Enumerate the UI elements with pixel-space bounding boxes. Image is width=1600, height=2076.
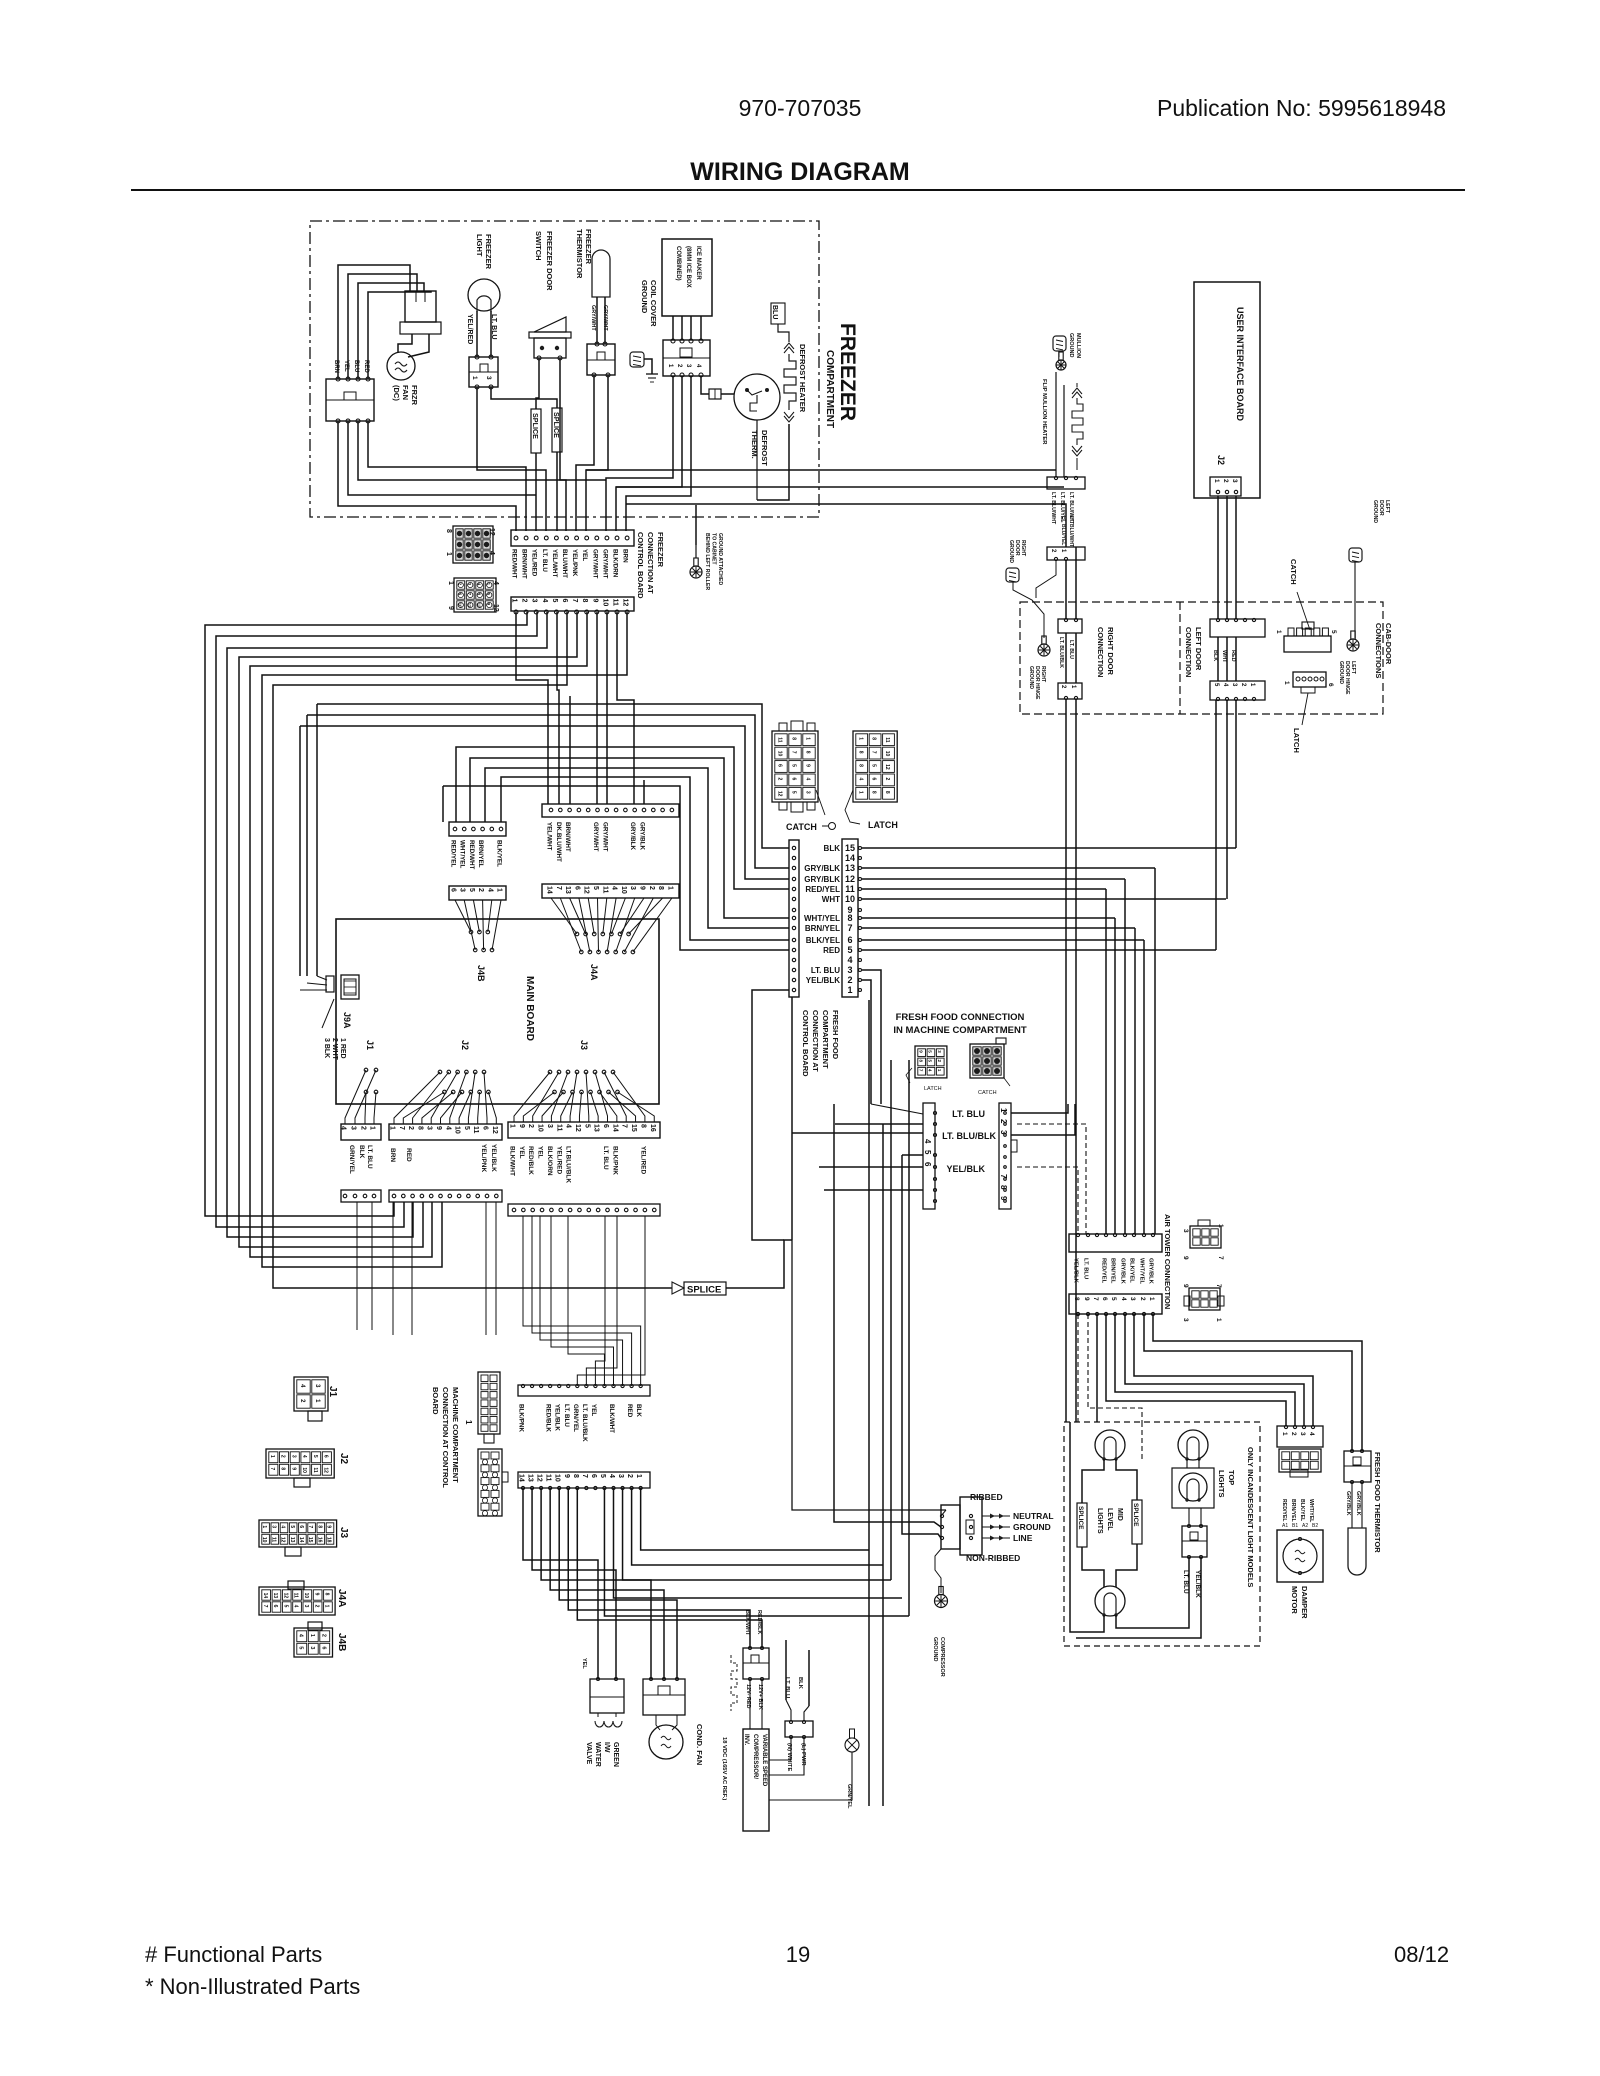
svg-text:11: 11: [845, 884, 855, 894]
right door ground wires: [1013, 582, 1044, 638]
svg-text:YEL/BLK: YEL/BLK: [806, 976, 840, 985]
svg-text:4: 4: [444, 1126, 451, 1130]
svg-text:YEL/BLK: YEL/BLK: [1073, 1258, 1079, 1284]
svg-text:13: 13: [289, 1537, 295, 1543]
damper motor box: [1277, 1530, 1323, 1582]
svg-text:YEL: YEL: [590, 1404, 597, 1416]
svg-text:2: 2: [280, 1455, 286, 1458]
svg-text:2: 2: [999, 1119, 1008, 1124]
svg-text:YEL: YEL: [581, 1658, 587, 1669]
J4B number strip: [449, 886, 506, 900]
legend J1 connector: [294, 1377, 328, 1411]
svg-text:BRN: BRN: [389, 1148, 396, 1162]
top lights bulbs: [1178, 1430, 1208, 1460]
right door bottom connector: [1058, 683, 1082, 699]
svg-text:AIR TOWER CONNECTION: AIR TOWER CONNECTION: [1163, 1214, 1172, 1309]
svg-text:FREEZER: FREEZER: [484, 234, 493, 270]
coil cover ground symbol: [630, 352, 644, 367]
fresh food pin 5 feeder: [442, 786, 444, 822]
svg-text:RED: RED: [405, 1148, 412, 1162]
svg-text:10: 10: [620, 886, 627, 894]
svg-text:5: 5: [1330, 630, 1337, 634]
thermistor wires down: [576, 375, 594, 531]
svg-text:INV.: INV.: [743, 1734, 749, 1745]
UI J2 connector: [1210, 477, 1241, 496]
svg-text:J9A: J9A: [342, 1012, 352, 1029]
svg-text:8: 8: [445, 529, 452, 533]
svg-text:4: 4: [340, 1126, 347, 1130]
svg-text:GRY/BLK: GRY/BLK: [1355, 1491, 1361, 1516]
svg-text:4: 4: [1308, 1432, 1315, 1436]
wire to defrost therm connector: [701, 376, 709, 394]
svg-text:Publication No: 5995618948: Publication No: 5995618948: [1157, 95, 1446, 121]
latch grid connector: [853, 731, 897, 802]
svg-text:ONLY INCANDESCENT LIGHT MODELS: ONLY INCANDESCENT LIGHT MODELS: [1246, 1447, 1255, 1587]
svg-text:YEL/PNK: YEL/PNK: [480, 1144, 487, 1172]
svg-text:12: 12: [322, 1467, 328, 1473]
svg-text:BRN/YEL: BRN/YEL: [477, 840, 484, 868]
svg-text:WIRING DIAGRAM: WIRING DIAGRAM: [690, 158, 909, 186]
svg-text:BLU: BLU: [771, 305, 778, 319]
svg-text:1: 1: [309, 1634, 315, 1637]
svg-text:FLIP MULLION HEATER: FLIP MULLION HEATER: [1041, 379, 1047, 445]
svg-text:WHT/YEL: WHT/YEL: [1308, 1499, 1314, 1523]
freezer light connector: [469, 357, 498, 387]
svg-text:RED/WHT: RED/WHT: [511, 549, 518, 579]
svg-text:12: 12: [476, 603, 481, 609]
svg-text:RED/BLK: RED/BLK: [756, 1610, 762, 1634]
legend J4A connector: [259, 1587, 335, 1615]
svg-text:6: 6: [573, 886, 580, 890]
svg-text:11: 11: [467, 603, 472, 608]
ice maker connector: [663, 340, 710, 376]
J1 bottom strip: [341, 1124, 381, 1140]
svg-text:11: 11: [545, 1474, 552, 1482]
svg-text:8: 8: [847, 913, 852, 923]
ice maker wires: [672, 316, 674, 340]
svg-text:1: 1: [369, 1126, 376, 1130]
svg-text:4: 4: [280, 1525, 286, 1528]
svg-text:J4A: J4A: [336, 1589, 347, 1607]
top lights wires down: [1116, 1557, 1189, 1628]
svg-text:6: 6: [272, 1605, 278, 1608]
svg-text:15: 15: [630, 1124, 637, 1132]
svg-text:18: 18: [326, 1537, 332, 1543]
svg-text:1: 1: [1148, 1297, 1155, 1301]
svg-text:YEL/PNK: YEL/PNK: [571, 549, 578, 577]
svg-text:COMBINED): COMBINED): [675, 246, 681, 281]
svg-text:8: 8: [324, 1593, 330, 1596]
svg-text:14: 14: [611, 1124, 618, 1132]
svg-text:18 VDC (165V AC REF.): 18 VDC (165V AC REF.): [721, 1737, 727, 1800]
svg-text:8: 8: [805, 751, 811, 754]
svg-text:10: 10: [884, 751, 890, 757]
svg-text:3: 3: [999, 1130, 1008, 1135]
legend J3 connector: [259, 1520, 337, 1547]
mullion heater connector: [1047, 477, 1085, 489]
svg-text:GROUND: GROUND: [1338, 661, 1344, 684]
svg-text:12: 12: [492, 604, 499, 612]
svg-text:RED: RED: [823, 946, 840, 955]
svg-text:LATCH: LATCH: [924, 1086, 942, 1092]
svg-text:J4B: J4B: [336, 1633, 347, 1651]
svg-text:2: 2: [320, 1634, 326, 1637]
compressor inline connector: [743, 1648, 769, 1679]
svg-text:4: 4: [565, 1124, 572, 1128]
svg-text:3: 3: [847, 965, 852, 975]
lt blu left strip feeds: [871, 1104, 923, 1114]
svg-text:14: 14: [298, 1537, 304, 1543]
svg-text:BLK: BLK: [824, 844, 841, 853]
svg-text:BLK/YEL: BLK/YEL: [1129, 1258, 1135, 1283]
cab latch connector: [1293, 672, 1326, 687]
mid lights wiring: [1082, 1459, 1104, 1503]
svg-text:5: 5: [282, 1605, 288, 1608]
svg-text:BLK: BLK: [635, 1404, 642, 1417]
svg-text:1: 1: [496, 888, 503, 892]
svg-text:LEVEL: LEVEL: [1106, 1508, 1113, 1531]
catch grid connector: [772, 731, 818, 802]
svg-text:9: 9: [290, 1467, 296, 1470]
svg-text:6: 6: [561, 599, 568, 603]
svg-text:GRY/WHT: GRY/WHT: [592, 822, 599, 852]
svg-text:11: 11: [601, 886, 608, 894]
svg-text:13: 13: [593, 1124, 600, 1132]
svg-text:14: 14: [546, 886, 553, 894]
svg-text:BLK/ORN: BLK/ORN: [546, 1146, 553, 1176]
svg-text:970-707035: 970-707035: [739, 95, 862, 121]
svg-text:THERM.: THERM.: [750, 430, 759, 459]
svg-text:08/12: 08/12: [1394, 1942, 1449, 1967]
svg-text:FREEZER DOOR: FREEZER DOOR: [545, 231, 554, 291]
svg-text:5: 5: [599, 1474, 606, 1478]
svg-text:1: 1: [447, 581, 454, 585]
air tower strip bottom: [1069, 1294, 1162, 1314]
svg-text:YEL/WHT: YEL/WHT: [546, 822, 553, 850]
svg-text:12: 12: [282, 1593, 288, 1599]
svg-text:9: 9: [1083, 1297, 1090, 1301]
svg-text:9: 9: [805, 764, 811, 767]
J2 lower pin row: [389, 1190, 502, 1202]
svg-text:BLK: BLK: [358, 1145, 365, 1159]
svg-text:WHT/YEL: WHT/YEL: [1139, 1258, 1145, 1285]
top lights leads: [1186, 1459, 1188, 1468]
svg-text:3: 3: [459, 888, 466, 892]
svg-text:5: 5: [297, 1646, 303, 1649]
svg-text:3: 3: [805, 791, 811, 794]
fresh food thermistor bulb: [1351, 1482, 1353, 1528]
left door top connector: [1210, 619, 1265, 637]
svg-text:GRY/WHT: GRY/WHT: [601, 822, 608, 852]
defrost therm inline connector: [709, 389, 721, 399]
svg-text:I/W: I/W: [603, 1742, 610, 1753]
splice left light: [1077, 1503, 1087, 1547]
svg-text:LT. BLU/BLK: LT. BLU/BLK: [942, 1131, 996, 1141]
right door wires down: [1065, 560, 1067, 619]
compressor ground lower: [935, 1549, 941, 1593]
cond fan connector: [643, 1679, 685, 1715]
svg-text:FREEZER: FREEZER: [836, 323, 859, 421]
group C wires J4B feeders to fresh food pins: [456, 747, 789, 889]
svg-text:GRY/WHT: GRY/WHT: [590, 305, 596, 331]
svg-text:9: 9: [999, 1196, 1008, 1201]
svg-text:7: 7: [1215, 1284, 1222, 1288]
svg-text:LT. BLU/WHT: LT. BLU/WHT: [1068, 516, 1074, 547]
svg-text:1: 1: [445, 552, 452, 556]
svg-text:DAMPER: DAMPER: [1300, 1586, 1309, 1619]
svg-text:GROUND: GROUND: [1068, 333, 1074, 357]
svg-text:12: 12: [884, 764, 890, 770]
svg-text:LEFT DOOR: LEFT DOOR: [1194, 627, 1203, 671]
svg-text:TO CABINET: TO CABINET: [711, 533, 717, 565]
svg-text:CONTROL BOARD: CONTROL BOARD: [636, 532, 645, 599]
frzr fan nested wires: [338, 265, 410, 379]
svg-text:1: 1: [1283, 681, 1290, 685]
svg-text:7: 7: [571, 599, 578, 603]
svg-text:YEL/BLK: YEL/BLK: [490, 1144, 497, 1172]
svg-text:9: 9: [1182, 1284, 1189, 1288]
svg-text:1: 1: [261, 1525, 267, 1528]
svg-text:2: 2: [1290, 1432, 1297, 1436]
svg-text:2 WHT: 2 WHT: [331, 1038, 338, 1061]
svg-text:8: 8: [416, 1126, 423, 1130]
damper grid connector: [1279, 1449, 1321, 1472]
svg-text:3: 3: [426, 1126, 433, 1130]
svg-text:6: 6: [298, 1525, 304, 1528]
svg-text:7: 7: [581, 1474, 588, 1478]
frzr fan motor connector: [405, 291, 436, 322]
svg-text:DK.BLU/WHT: DK.BLU/WHT: [555, 822, 562, 862]
power to inverter wires: [769, 1737, 791, 1760]
svg-text:COMPRESSOR/: COMPRESSOR/: [752, 1734, 758, 1779]
svg-text:BRN/YEL: BRN/YEL: [1110, 1258, 1116, 1284]
svg-text:2: 2: [407, 1126, 414, 1130]
svg-text:YEL: YEL: [581, 549, 588, 561]
svg-text:3: 3: [270, 1525, 276, 1528]
svg-text:COMPARTMENT: COMPARTMENT: [821, 1010, 830, 1069]
svg-text:DEFROST HEATER: DEFROST HEATER: [798, 344, 807, 413]
svg-text:GROUND: GROUND: [1008, 540, 1014, 563]
svg-text:NEUTRAL: NEUTRAL: [1013, 1511, 1054, 1521]
svg-text:3: 3: [350, 1126, 357, 1130]
svg-text:SWITCH: SWITCH: [534, 231, 543, 261]
mullion heater element: [1072, 388, 1082, 394]
svg-text:9: 9: [447, 606, 454, 610]
svg-text:FAN: FAN: [401, 385, 410, 400]
svg-text:GRN/YEL: GRN/YEL: [348, 1145, 355, 1174]
svg-text:FRZR: FRZR: [410, 385, 419, 406]
svg-text:16: 16: [649, 1124, 656, 1132]
svg-text:8: 8: [316, 1525, 322, 1528]
svg-text:1: 1: [635, 1474, 642, 1478]
svg-text:2: 2: [648, 886, 655, 890]
svg-text:CONNECTION: CONNECTION: [1096, 627, 1105, 677]
svg-text:2: 2: [477, 888, 484, 892]
svg-text:13: 13: [272, 1593, 278, 1599]
svg-text:9: 9: [563, 1474, 570, 1478]
svg-text:4: 4: [923, 1139, 932, 1144]
svg-text:4: 4: [1120, 1297, 1127, 1301]
door connections dashed box: [1020, 602, 1383, 714]
svg-text:3: 3: [617, 1474, 624, 1478]
svg-text:ICE MAKER: ICE MAKER: [695, 246, 701, 280]
svg-text:GROUND: GROUND: [640, 280, 649, 314]
svg-text:8: 8: [581, 599, 588, 603]
svg-text:GREEN: GREEN: [612, 1742, 619, 1767]
svg-text:BRN: BRN: [622, 549, 629, 563]
svg-text:1: 1: [324, 1605, 330, 1608]
svg-text:9: 9: [639, 886, 646, 890]
svg-text:2: 2: [360, 1126, 367, 1130]
svg-text:7: 7: [871, 751, 877, 754]
svg-text:J4A: J4A: [589, 964, 599, 981]
svg-text:CONNECTION AT: CONNECTION AT: [646, 532, 655, 594]
svg-text:7: 7: [1092, 1297, 1099, 1301]
svg-text:13: 13: [564, 886, 571, 894]
svg-text:1: 1: [389, 1126, 396, 1130]
svg-text:BLK/YEL: BLK/YEL: [1299, 1499, 1305, 1522]
svg-text:J1: J1: [365, 1040, 375, 1050]
svg-text:GROUND: GROUND: [1013, 1522, 1051, 1532]
thermistor leads: [596, 297, 598, 344]
svg-text:LT.BLU/BLK: LT.BLU/BLK: [565, 1146, 572, 1183]
svg-text:11: 11: [472, 1126, 479, 1134]
svg-text:SPLICE: SPLICE: [531, 413, 540, 439]
svg-text:J3: J3: [338, 1527, 349, 1539]
svg-text:DEFROST: DEFROST: [760, 430, 769, 466]
svg-text:WHT/YEL: WHT/YEL: [804, 914, 840, 923]
svg-text:RED/WHT: RED/WHT: [468, 840, 475, 870]
compressor power connector: [785, 1721, 813, 1737]
svg-text:3: 3: [1182, 1318, 1189, 1322]
svg-text:MULLION: MULLION: [1075, 333, 1081, 358]
svg-text:1: 1: [999, 1108, 1008, 1113]
UI wires to left door connector: [1217, 496, 1219, 619]
svg-text:BRN/WHT: BRN/WHT: [564, 822, 571, 852]
svg-text:8: 8: [1073, 1297, 1080, 1301]
svg-text:2: 2: [313, 1605, 319, 1608]
splice feed rail: [273, 612, 672, 1288]
legend J2 connector: [266, 1449, 334, 1478]
svg-text:4: 4: [492, 581, 499, 585]
svg-text:WATER: WATER: [594, 1742, 601, 1767]
incandescent lights dashed box: [1064, 1422, 1260, 1646]
water valve coil: [595, 1721, 622, 1727]
svg-text:RED/YEL: RED/YEL: [450, 840, 457, 867]
svg-text:GRN/YEL: GRN/YEL: [572, 1404, 579, 1432]
legend J4B connector: [294, 1628, 333, 1657]
svg-text:RED/YEL: RED/YEL: [1281, 1499, 1287, 1522]
svg-text:6: 6: [847, 935, 852, 945]
svg-text:BLU/WHT: BLU/WHT: [561, 549, 568, 578]
J2 bottom strip: [389, 1124, 502, 1140]
svg-text:12: 12: [777, 791, 783, 797]
svg-text:J2: J2: [1216, 455, 1226, 465]
svg-text:6: 6: [777, 764, 783, 767]
ice maker box: [662, 239, 712, 316]
air tower to damper and thermistor wires: [1153, 1314, 1362, 1451]
svg-text:FRESH FOOD CONNECTION: FRESH FOOD CONNECTION: [896, 1012, 1025, 1023]
svg-text:SPLICE: SPLICE: [1077, 1506, 1084, 1530]
svg-text:10: 10: [554, 1474, 561, 1482]
svg-text:GROUND ATTACHED: GROUND ATTACHED: [717, 533, 723, 585]
machine compartment connector lower grid: [478, 1449, 502, 1516]
svg-text:12: 12: [583, 886, 590, 894]
svg-text:WHT/YEL: WHT/YEL: [459, 840, 466, 868]
svg-text:BLK/WHT: BLK/WHT: [509, 1146, 516, 1176]
svg-text:CONNECTION AT CONTROL: CONNECTION AT CONTROL: [441, 1387, 450, 1488]
svg-text:6: 6: [322, 1455, 328, 1458]
thermistor bulb: [592, 250, 610, 297]
svg-text:B2: B2: [1312, 1523, 1318, 1529]
svg-text:BLK/WHT: BLK/WHT: [744, 1610, 750, 1636]
svg-text:RED: RED: [626, 1404, 633, 1418]
J9A connector: [341, 975, 359, 999]
svg-text:5: 5: [289, 1525, 295, 1528]
svg-text:CATCH: CATCH: [1289, 559, 1298, 585]
svg-text:CATCH: CATCH: [786, 822, 817, 832]
svg-text:BLK: BLK: [1212, 650, 1218, 661]
svg-text:5: 5: [312, 1455, 318, 1458]
svg-text:10: 10: [454, 1126, 461, 1134]
ribbed wire symbol: [731, 1655, 737, 1711]
svg-text:3: 3: [1129, 1297, 1136, 1301]
svg-text:LT. BLU: LT. BLU: [563, 1404, 570, 1427]
svg-text:3: 3: [1299, 1432, 1306, 1436]
freezer connection strip 2 with pin numbers: [511, 597, 634, 611]
mid level bulb top: [1095, 1430, 1125, 1460]
svg-text:1: 1: [509, 1124, 516, 1128]
long verticals to machine area: [791, 997, 793, 1240]
machine compartment strip: [518, 1385, 650, 1396]
svg-text:GRY/BLK: GRY/BLK: [629, 822, 636, 851]
splice 2 box: [552, 408, 562, 452]
svg-text:11: 11: [555, 1124, 562, 1132]
svg-text:B1: B1: [1292, 1523, 1298, 1529]
svg-text:CONNECTION AT: CONNECTION AT: [811, 1010, 820, 1072]
svg-text:4: 4: [293, 1605, 299, 1608]
svg-text:GROUND: GROUND: [1372, 500, 1378, 523]
svg-text:THERMISTOR: THERMISTOR: [575, 229, 584, 279]
svg-text:YEL: YEL: [537, 1146, 544, 1159]
svg-text:BRN/YEL: BRN/YEL: [805, 924, 840, 933]
svg-text:7: 7: [999, 1174, 1008, 1179]
svg-text:LT. BLU/BLK: LT. BLU/BLK: [1058, 637, 1064, 668]
user interface board: [1194, 282, 1260, 498]
svg-text:J2: J2: [460, 1040, 470, 1050]
svg-text:15: 15: [845, 843, 855, 853]
door switch symbol: [534, 317, 566, 332]
J2 lower stub drops: [392, 1202, 394, 1335]
svg-text:(DC): (DC): [392, 385, 401, 401]
svg-text:2: 2: [847, 975, 852, 985]
svg-text:8: 8: [884, 791, 890, 794]
machine compartment catch connector: [970, 1044, 1004, 1078]
J3 lower wires to machine strip: [523, 1216, 641, 1386]
svg-text:5: 5: [583, 1124, 590, 1128]
svg-text:11: 11: [270, 1537, 276, 1543]
svg-text:J4B: J4B: [476, 965, 486, 982]
svg-text:GRY/WHT: GRY/WHT: [591, 549, 598, 579]
svg-text:11: 11: [884, 737, 890, 743]
svg-text:6: 6: [450, 888, 457, 892]
svg-text:BEHIND LEFT ROLLER: BEHIND LEFT ROLLER: [704, 533, 710, 590]
freezer compartment dashed boundary: [310, 221, 819, 517]
svg-text:COMPARTMENT: COMPARTMENT: [824, 350, 835, 428]
cond fan motor: [649, 1725, 683, 1759]
svg-text:LIGHTS: LIGHTS: [1217, 1470, 1226, 1498]
svg-text:LT. BLU/WHT: LT. BLU/WHT: [1050, 492, 1056, 525]
